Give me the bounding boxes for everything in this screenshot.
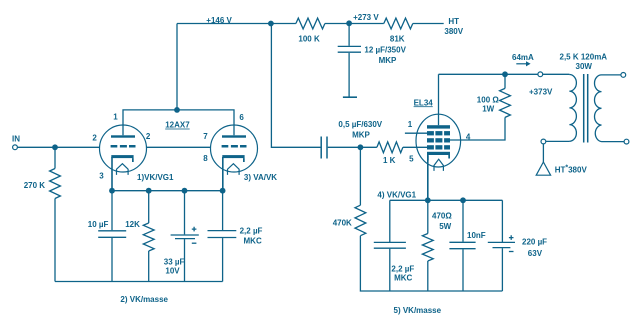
- svg-text:1: 1: [408, 120, 413, 129]
- svg-text:1W: 1W: [482, 105, 494, 114]
- svg-text:0,5 µF/630V: 0,5 µF/630V: [338, 120, 382, 129]
- svg-text:HT*380V: HT*380V: [555, 164, 588, 174]
- svg-text:1)VK/VG1: 1)VK/VG1: [137, 173, 174, 182]
- svg-text:MKP: MKP: [379, 56, 397, 65]
- svg-text:33 µF: 33 µF: [164, 257, 185, 266]
- svg-text:+146 V: +146 V: [206, 16, 232, 25]
- svg-text:2,5 K 120mA: 2,5 K 120mA: [560, 53, 608, 62]
- svg-text:30W: 30W: [576, 62, 593, 71]
- svg-text:100 Ω: 100 Ω: [477, 96, 500, 105]
- svg-text:1 K: 1 K: [383, 156, 396, 165]
- svg-text:HT: HT: [448, 17, 459, 26]
- svg-text:220 µF: 220 µF: [522, 237, 547, 246]
- svg-text:3) VA/VK: 3) VA/VK: [244, 173, 277, 182]
- svg-text:2: 2: [146, 132, 151, 141]
- svg-text:12AX7: 12AX7: [165, 121, 190, 130]
- svg-text:380V: 380V: [444, 27, 463, 36]
- svg-text:8: 8: [203, 154, 208, 163]
- svg-text:64mA: 64mA: [512, 53, 534, 62]
- svg-text:2: 2: [92, 134, 97, 143]
- svg-text:MKC: MKC: [244, 236, 262, 245]
- svg-text:12K: 12K: [125, 220, 140, 229]
- svg-text:3: 3: [99, 172, 104, 181]
- svg-text:10 µF: 10 µF: [88, 220, 109, 229]
- svg-text:470Ω: 470Ω: [432, 211, 452, 220]
- svg-text:63V: 63V: [528, 249, 543, 258]
- svg-text:12 µF/350V: 12 µF/350V: [364, 46, 406, 55]
- svg-text:6: 6: [239, 113, 244, 122]
- svg-text:4) VK/VG1: 4) VK/VG1: [377, 190, 416, 199]
- svg-text:MKC: MKC: [394, 274, 412, 283]
- svg-text:270 K: 270 K: [24, 181, 46, 190]
- svg-text:EL34: EL34: [414, 98, 434, 107]
- svg-text:10nF: 10nF: [467, 231, 486, 240]
- svg-text:IN: IN: [12, 134, 20, 143]
- svg-text:5: 5: [409, 155, 414, 164]
- svg-text:2,2 µF: 2,2 µF: [391, 264, 414, 273]
- svg-text:MKP: MKP: [352, 130, 370, 139]
- svg-text:5W: 5W: [439, 222, 451, 231]
- svg-text:7: 7: [203, 132, 208, 141]
- svg-text:+373V: +373V: [529, 87, 553, 96]
- svg-text:100 K: 100 K: [298, 34, 320, 43]
- svg-text:81K: 81K: [390, 34, 405, 43]
- svg-text:10V: 10V: [165, 266, 180, 275]
- svg-text:5) VK/masse: 5) VK/masse: [394, 306, 442, 315]
- svg-text:2,2 µF: 2,2 µF: [240, 227, 263, 236]
- svg-text:2) VK/masse: 2) VK/masse: [120, 295, 168, 304]
- svg-text:1: 1: [113, 112, 118, 121]
- svg-text:4: 4: [466, 132, 471, 141]
- svg-text:+273 V: +273 V: [353, 13, 379, 22]
- svg-text:470K: 470K: [333, 218, 352, 227]
